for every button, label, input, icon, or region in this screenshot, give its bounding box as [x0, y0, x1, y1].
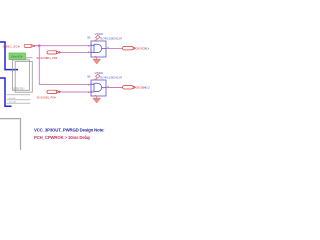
- svg-text:SMBW_EF#: SMBW_EF#: [12, 89, 25, 91]
- svg-text:U5 74HC1G08O-KL3-R: U5 74HC1G08O-KL3-R: [100, 77, 122, 80]
- svg-text:100m BC#: 100m BC#: [11, 56, 23, 59]
- ground arrow (gate1): [96, 58, 98, 61]
- svg-text:1: 1: [91, 44, 92, 46]
- block sheet-symbol A (gray): [13, 60, 30, 90]
- wire gray pin line 2: [7, 99, 31, 101]
- svg-text:33.2: 33.2: [145, 87, 150, 90]
- pin 2 dot (gate1): [88, 52, 90, 54]
- block bottom-left sheet edge (gray): [0, 119, 21, 150]
- highlight box (green): [9, 53, 26, 60]
- wire gate1 input A (y=45.3): [35, 45, 91, 47]
- off-page connector SMBC_EC#: [24, 44, 35, 47]
- wire gray pin line 3: [7, 102, 31, 104]
- svg-text:VDDO: VDDO: [95, 71, 104, 75]
- op body box (gate1): [91, 41, 106, 57]
- svg-text:30 SUSB1_PD#: 30 SUSB1_PD#: [37, 95, 57, 99]
- svg-text:5/6: 5/6: [87, 76, 91, 79]
- svg-text:PCH_CPWROK > 10ms Delay: PCH_CPWROK > 10ms Delay: [34, 135, 91, 140]
- wire gray pin line 1: [7, 94, 31, 96]
- pin 2 dot (gate2): [88, 92, 90, 94]
- ground arrow (gate2): [96, 97, 98, 100]
- off-page connector DSUSCF (gate1 output): [123, 47, 136, 50]
- svg-text:30 SUSB04_PD#: 30 SUSB04_PD#: [37, 56, 58, 60]
- off-page connector SUSB04_PD#: [47, 51, 60, 54]
- wire gate2 input B (y=92.4): [60, 91, 91, 93]
- pin 5 dot top (gate2): [95, 79, 97, 81]
- off-page connector SUSB1_PD#: [47, 90, 60, 93]
- pin 1 dot (gate1): [88, 45, 90, 47]
- power symbol diamond (gate2): [96, 74, 100, 78]
- wire blue bus bracket 1 (net from left edge down to stub): [0, 42, 18, 70]
- wire gate2 input A (y=84.7): [39, 84, 91, 86]
- block sheet-symbol B (gray, overlapping): [15, 62, 32, 93]
- AND gate symbol (gate1): [94, 44, 102, 52]
- wire gate1 output: [106, 47, 123, 49]
- svg-text:1: 1: [91, 83, 92, 85]
- svg-text:5/6: 5/6: [87, 37, 91, 40]
- svg-text:SMBC_EC#: SMBC_EC#: [3, 44, 21, 48]
- svg-text:VCC_3P3OUT_PWRGD Design Note:: VCC_3P3OUT_PWRGD Design Note:: [34, 127, 105, 132]
- wire blue bus bracket 2: [0, 78, 12, 106]
- svg-text:2: 2: [91, 51, 92, 53]
- off-page connector DSUSB# (gate2 output): [123, 86, 136, 89]
- pin 3 dot bottom (gate2): [95, 95, 97, 97]
- svg-text:KL4: KL4: [145, 48, 150, 51]
- op body box (gate2): [91, 80, 106, 96]
- svg-text:2: 2: [91, 91, 92, 93]
- pin 1 dot (gate2): [88, 84, 90, 86]
- pin 5 dot top (gate1): [95, 40, 97, 42]
- power symbol diamond (gate1): [96, 35, 100, 39]
- wire gate1 input B (y=52.4): [60, 51, 91, 53]
- svg-text:U5 74HC1G08O-KL3-R: U5 74HC1G08O-KL3-R: [100, 38, 122, 41]
- wire gate2 output: [106, 87, 123, 89]
- node junction on input A: [38, 45, 40, 47]
- svg-text:VDDO: VDDO: [95, 32, 104, 36]
- pin 3 dot bottom (gate1): [95, 56, 97, 58]
- AND gate symbol (gate2): [94, 83, 102, 91]
- wire vertical branch x=39.4: [38, 46, 40, 85]
- wire gray stub from green box: [26, 57, 33, 59]
